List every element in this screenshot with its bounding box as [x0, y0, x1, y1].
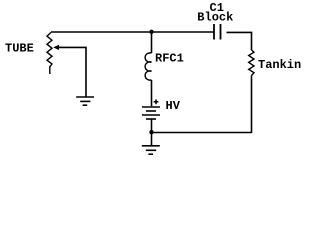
svg-text:Block: Block [197, 11, 233, 25]
wire bottom rail [152, 132, 252, 134]
capacitor C1 plates [214, 24, 221, 40]
wire top rail left segment [51, 31, 214, 33]
ground G2 (below battery) [142, 146, 160, 154]
battery HV plus sign [154, 99, 159, 104]
wire RFC1 bottom lead [151, 80, 153, 106]
wire Tankin bottom lead [251, 76, 253, 134]
wire arrow lead [59, 47, 86, 96]
inductor Tankin (zigzag) [249, 50, 254, 76]
node junction top (dot) [149, 30, 153, 34]
wire RFC1 top lead [151, 32, 153, 53]
wiper arrow head [53, 45, 59, 50]
svg-text:Tankin: Tankin [258, 58, 301, 72]
inductor RFC1 (coil) [145, 53, 151, 80]
wire battery to bottom node [151, 119, 153, 146]
tube element (zigzag) [47, 32, 52, 74]
svg-text:TUBE: TUBE [5, 42, 34, 56]
wire top rail right segment (cap to corner) [227, 32, 252, 50]
node junction bottom (dot) [149, 130, 153, 134]
battery HV plates [142, 107, 160, 119]
svg-text:RFC1: RFC1 [155, 52, 184, 66]
ground G1 (left) [76, 97, 94, 105]
svg-text:HV: HV [166, 99, 181, 113]
